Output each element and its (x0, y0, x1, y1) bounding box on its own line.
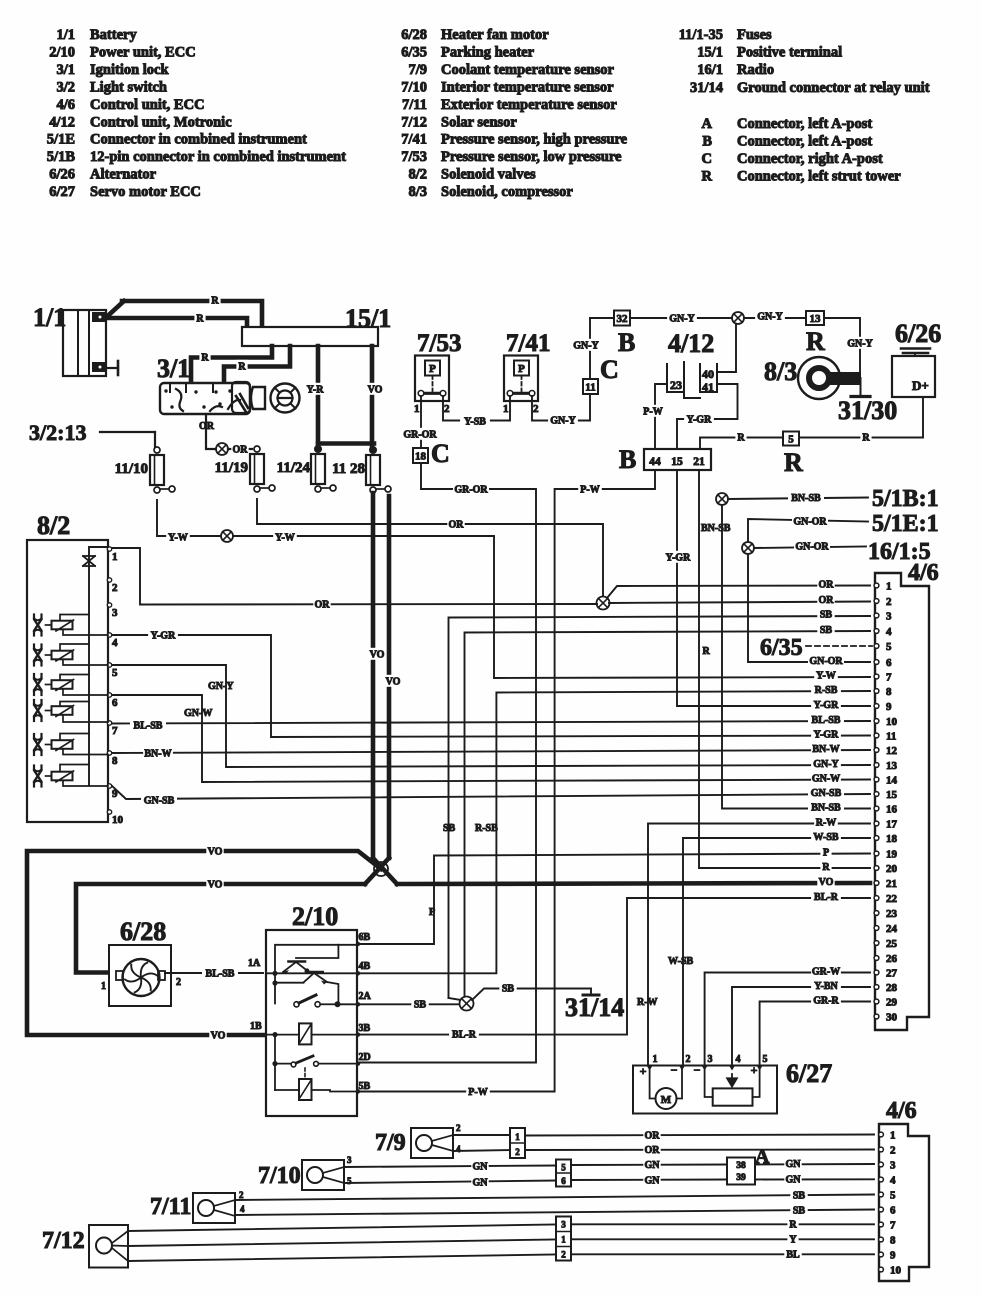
svg-text:R: R (862, 433, 870, 444)
4/6 bottom pins (879, 1130, 902, 1277)
wire GR-R 4/6 pin29 to 6/27 pin5 (760, 1002, 870, 1066)
svg-text:BL: BL (786, 1250, 800, 1261)
svg-text:GN-OR: GN-OR (793, 517, 827, 528)
svg-text:GN-Y: GN-Y (757, 312, 783, 323)
wire R-W 4/6 pin17 to 6/27 pin1 (648, 824, 870, 1066)
wire SB 4/6 pin4 to ground junction (465, 631, 871, 997)
svg-text:BL-SB: BL-SB (206, 969, 235, 980)
svg-text:2: 2 (686, 1054, 691, 1065)
svg-text:4/12: 4/12 (49, 114, 75, 130)
wire VO 15/1 to fuse 11/28 (370, 346, 375, 450)
8/2 internal supply bus (89, 547, 108, 785)
ignition key bezel (251, 387, 265, 409)
solenoid valve 6 in 8/2 (34, 765, 108, 787)
svg-text:1B: 1B (250, 1021, 262, 1032)
svg-text:5: 5 (763, 1054, 768, 1065)
svg-text:Y-W: Y-W (275, 533, 295, 544)
svg-text:GN: GN (786, 1175, 802, 1186)
connector B bar 44 15 21 (619, 445, 711, 474)
wire VO lower-right branch to 4/6 pin 21 (397, 883, 870, 884)
svg-text:BN-SB: BN-SB (791, 493, 821, 504)
svg-text:SB: SB (793, 1206, 806, 1217)
wire BL-R 4/6 pin22 to 2/10 3B (360, 898, 870, 1035)
svg-text:2: 2 (886, 596, 892, 608)
power unit 2/10 (266, 902, 357, 1116)
svg-text:R: R (702, 168, 713, 184)
svg-text:30: 30 (886, 1012, 898, 1024)
svg-text:6/26: 6/26 (49, 167, 75, 183)
svg-text:GN-Y: GN-Y (813, 759, 839, 770)
svg-text:SB: SB (793, 1191, 806, 1202)
svg-text:23: 23 (886, 908, 898, 920)
wire Y-GR 8/2 pin4 to 4/6 pin 11 (112, 635, 870, 737)
connector C box 18 (413, 448, 428, 463)
svg-text:GN-Y: GN-Y (573, 341, 599, 352)
svg-text:BL-SB: BL-SB (134, 721, 163, 732)
svg-text:7/10: 7/10 (258, 1163, 301, 1189)
svg-text:−: − (671, 1063, 678, 1077)
legend column 3 (679, 27, 930, 184)
svg-text:24: 24 (886, 923, 898, 935)
svg-text:Battery: Battery (90, 27, 137, 43)
svg-text:6: 6 (886, 657, 892, 669)
svg-text:GN-OR: GN-OR (809, 656, 843, 667)
svg-text:Y-GR: Y-GR (151, 631, 176, 642)
svg-text:8/2: 8/2 (37, 511, 70, 540)
svg-text:3B: 3B (359, 1023, 371, 1034)
svg-text:BL-R: BL-R (452, 1030, 477, 1041)
svg-text:Pressure sensor, high pressure: Pressure sensor, high pressure (441, 132, 628, 148)
svg-text:Solenoid valves: Solenoid valves (441, 167, 536, 183)
pressure sensor 7/53 (414, 330, 461, 415)
svg-text:1: 1 (112, 551, 118, 563)
svg-text:GN-W: GN-W (812, 774, 840, 785)
svg-text:15: 15 (671, 456, 683, 468)
svg-text:+: + (640, 1064, 647, 1078)
svg-text:14: 14 (886, 775, 898, 787)
svg-text:7: 7 (886, 672, 892, 684)
svg-text:GN-Y: GN-Y (669, 314, 695, 325)
wire OR to 4/6 bottom pin2 (525, 1149, 874, 1152)
svg-text:BL-R: BL-R (814, 892, 839, 903)
battery 1/1 (33, 303, 106, 376)
svg-text:C: C (600, 355, 619, 384)
svg-text:7/9: 7/9 (408, 62, 427, 78)
control unit ECC connector 4/6 (bottom) (879, 1098, 929, 1281)
battery ground stub (106, 367, 118, 369)
svg-text:Ignition lock: Ignition lock (90, 62, 169, 78)
wire BN-SB splice to 4/6 pin 16 (722, 505, 870, 809)
svg-text:11/10: 11/10 (115, 461, 148, 477)
wire BN-SB splice to 5/1B:1 (728, 498, 868, 500)
svg-text:3/2:13: 3/2:13 (29, 420, 86, 445)
wire GN to 4/6 bottom pin3 (755, 1163, 874, 1166)
wire GN-W 8/2 pin6 to 4/6 pin 14 (112, 695, 870, 782)
svg-text:Y-GR: Y-GR (814, 730, 839, 741)
svg-text:4: 4 (112, 637, 118, 649)
svg-text:Y-GR: Y-GR (666, 553, 691, 564)
svg-text:GN-Y: GN-Y (847, 339, 873, 350)
wire R connector B pin21 to box 5 (700, 438, 783, 450)
svg-text:GN: GN (645, 1176, 661, 1187)
svg-text:W-SB: W-SB (668, 956, 694, 967)
wire GR-OR box 18 to power unit 2/10 pin 2D (360, 463, 536, 1063)
svg-text:1: 1 (503, 403, 509, 415)
svg-text:R: R (201, 353, 209, 364)
svg-text:B: B (618, 328, 635, 357)
wire Y-W fuse 11/10 to 4/6 pin 7 (157, 500, 221, 536)
svg-text:38: 38 (736, 1161, 746, 1171)
svg-text:7/12: 7/12 (401, 114, 427, 130)
svg-text:BL-SB: BL-SB (812, 715, 841, 726)
svg-text:1: 1 (886, 581, 892, 593)
svg-text:11: 11 (585, 381, 595, 393)
svg-text:VO: VO (819, 877, 834, 888)
svg-text:7/12: 7/12 (42, 1228, 85, 1254)
legend column 2 (401, 27, 627, 200)
svg-text:Connector, left A-post: Connector, left A-post (737, 116, 872, 132)
svg-text:GN: GN (786, 1159, 802, 1170)
svg-text:7/53: 7/53 (417, 330, 461, 357)
svg-text:P-W: P-W (643, 407, 662, 418)
wire Y to 4/6 bottom pin8 (571, 1238, 874, 1240)
svg-text:GR-OR: GR-OR (454, 485, 488, 496)
svg-text:11 28: 11 28 (332, 461, 365, 477)
ground 31/14 (583, 994, 599, 997)
wire GN-Y 7/41 pin2 to connector C box 11 (532, 394, 590, 421)
wire Y-GR 4/12 pin 41 to connector B pin 15 (677, 384, 738, 449)
fuse 11/10 (27, 310, 941, 1281)
svg-text:6/28: 6/28 (401, 27, 427, 43)
svg-text:BN-W: BN-W (144, 749, 171, 760)
svg-text:40: 40 (702, 367, 714, 381)
svg-text:10: 10 (890, 1265, 902, 1277)
svg-text:SB: SB (820, 610, 833, 621)
svg-text:10: 10 (112, 814, 124, 826)
svg-text:GN: GN (473, 1178, 489, 1189)
svg-text:5: 5 (890, 1190, 896, 1202)
svg-text:R-W: R-W (637, 997, 658, 1008)
svg-text:BN-W: BN-W (812, 744, 839, 755)
svg-text:5/1B: 5/1B (47, 149, 76, 165)
wire GN-OR splice to 16/1:5 (754, 547, 866, 549)
2/10 internal transistor stage (266, 945, 357, 1008)
svg-text:2: 2 (176, 977, 181, 988)
wire P-W connector B pin44 to power unit 2/10 pin 5B (360, 470, 655, 1092)
connector box 1/2 (510, 1128, 525, 1158)
svg-text:4/12: 4/12 (668, 329, 714, 358)
svg-text:Radio: Radio (737, 62, 774, 78)
svg-text:GN-SB: GN-SB (144, 796, 175, 807)
svg-text:4B: 4B (359, 961, 371, 972)
svg-text:R: R (211, 296, 219, 307)
svg-text:M: M (661, 1094, 672, 1106)
svg-text:1A: 1A (248, 958, 261, 969)
wire SB 2/10 pin 2A to ground junction (360, 1003, 458, 1005)
svg-text:SB: SB (443, 823, 456, 834)
2/10 internal relay resistors (266, 1023, 357, 1100)
wire SB 4/6 pin3 to ground junction (449, 616, 871, 998)
wire BL-SB 6/28 pin2 to 2/10 pin 1A (165, 972, 263, 974)
svg-text:7: 7 (112, 725, 118, 737)
svg-text:16/1: 16/1 (697, 62, 723, 78)
svg-text:Y-GR: Y-GR (687, 415, 712, 426)
svg-text:GN-Y: GN-Y (208, 681, 234, 692)
svg-text:Y-W: Y-W (816, 671, 836, 682)
svg-text:Connector in combined instrume: Connector in combined instrument (90, 132, 307, 148)
svg-text:19: 19 (886, 849, 898, 861)
svg-text:8: 8 (890, 1235, 896, 1247)
svg-text:4: 4 (456, 1144, 461, 1154)
wire R-SB 4/6 pin8 to 2/10 4B (360, 691, 870, 973)
svg-text:BN-SB: BN-SB (701, 523, 731, 534)
svg-text:7/11: 7/11 (402, 97, 427, 113)
svg-text:1: 1 (561, 1235, 566, 1245)
wire GN to connector A box 38/39 (571, 1164, 727, 1167)
svg-text:Heater fan motor: Heater fan motor (441, 27, 549, 43)
svg-text:7/41: 7/41 (506, 330, 550, 357)
svg-text:B: B (702, 133, 712, 149)
pressure sensor 7/41 (503, 330, 550, 415)
wire R to 4/6 bottom pin7 (571, 1223, 874, 1225)
svg-text:R: R (238, 362, 246, 373)
svg-text:OR: OR (233, 445, 249, 456)
wire GN 7/10 to connector box 5/6 (344, 1166, 556, 1168)
svg-text:P: P (429, 363, 436, 375)
svg-text:OR: OR (645, 1145, 661, 1156)
wire SB 7/11 to 4/6 bottom pin6 (235, 1210, 874, 1216)
splice BN-SB (716, 493, 728, 505)
svg-text:Solar sensor: Solar sensor (441, 114, 517, 130)
wire OR junction to solenoid valves 8/2 pin 1 (112, 548, 597, 605)
wire GR-W 4/6 pin27 to 6/27 pin3 (705, 973, 870, 1066)
4/6 top pins (874, 581, 897, 1024)
svg-text:6: 6 (112, 697, 118, 709)
svg-text:P: P (429, 907, 435, 918)
solenoid compressor 8/3 (764, 357, 840, 399)
wires 7/12 to connector box 3/1/2 (128, 1225, 556, 1232)
svg-text:R: R (806, 327, 825, 356)
svg-text:VO: VO (208, 880, 223, 891)
svg-text:9: 9 (890, 1250, 896, 1262)
svg-text:6/35: 6/35 (401, 44, 427, 60)
wire GN-OR splice to 4/6 pin 6 (748, 554, 870, 662)
svg-text:P-W: P-W (580, 485, 599, 496)
svg-text:4: 4 (736, 1054, 741, 1065)
solenoid valve 4 in 8/2 (34, 700, 108, 722)
wire OR junction to 4/6 pin 2 (609, 602, 870, 604)
svg-text:2: 2 (456, 1123, 461, 1133)
svg-text:17: 17 (886, 819, 898, 831)
svg-text:2: 2 (444, 403, 450, 415)
svg-text:OR: OR (315, 600, 331, 611)
svg-text:+: + (751, 1063, 758, 1077)
svg-text:29: 29 (886, 997, 898, 1009)
svg-text:12: 12 (886, 745, 898, 757)
svg-text:Connector, right A-post: Connector, right A-post (737, 151, 883, 167)
8/2 pin stubs (107, 547, 123, 826)
svg-text:Exterior temperature sensor: Exterior temperature sensor (441, 97, 617, 113)
svg-text:OR: OR (199, 421, 215, 432)
wire GR-OR 7/53 pin1 to connector C box 18 (420, 396, 422, 448)
svg-text:6: 6 (561, 1176, 566, 1186)
wire GN-SB 8/2 pin9 to 4/6 pin 15 (112, 786, 870, 799)
svg-text:VO: VO (386, 677, 401, 688)
svg-text:6/27: 6/27 (49, 184, 75, 200)
svg-text:1: 1 (101, 981, 106, 992)
svg-text:SB: SB (414, 1000, 427, 1011)
svg-text:8/2: 8/2 (408, 167, 427, 183)
svg-text:4/6: 4/6 (908, 560, 939, 586)
wire Y-SB 7/53 pin2 to 7/41 pin1 (443, 396, 510, 421)
svg-text:Ground connector at relay unit: Ground connector at relay unit (737, 80, 930, 96)
fuse 11/24 (27, 310, 941, 1281)
svg-text:21: 21 (693, 456, 705, 468)
svg-text:2A: 2A (359, 991, 372, 1002)
svg-text:GN-SB: GN-SB (811, 788, 842, 799)
wire Y-GR connector B pin15 to 4/6 pin 9 (677, 470, 870, 706)
svg-text:OR: OR (819, 580, 835, 591)
alternator 6/26 (892, 319, 941, 397)
svg-text:C: C (702, 151, 712, 167)
2/10 pin labels (356, 932, 372, 1094)
svg-text:GR-W: GR-W (812, 967, 840, 978)
svg-text:OR: OR (449, 520, 465, 531)
svg-text:5: 5 (788, 433, 794, 445)
svg-text:6/27: 6/27 (786, 1059, 832, 1088)
connector R box 13 (806, 311, 824, 325)
8/2 bus connector symbol (83, 556, 95, 566)
svg-text:Control unit, ECC: Control unit, ECC (90, 97, 205, 113)
connector box 5/6 (556, 1160, 571, 1187)
wire R box 5 to alternator 6/26 (799, 397, 923, 438)
svg-text:32: 32 (617, 313, 629, 325)
wire GN to 4/6 bottom pin4 (755, 1178, 874, 1180)
svg-text:A: A (702, 116, 713, 132)
wire OR ignition to fuse 11/19 (206, 414, 216, 449)
svg-text:Parking heater: Parking heater (441, 44, 535, 60)
svg-text:8/3: 8/3 (764, 357, 797, 386)
svg-text:R: R (822, 862, 830, 873)
svg-text:P: P (518, 363, 525, 375)
svg-text:8/3: 8/3 (408, 184, 427, 200)
svg-text:Y: Y (789, 1235, 797, 1246)
svg-text:R: R (784, 448, 803, 477)
svg-text:1/1: 1/1 (56, 27, 75, 43)
svg-text:Power unit, ECC: Power unit, ECC (90, 44, 196, 60)
svg-text:2: 2 (561, 1250, 566, 1260)
svg-text:GN-W: GN-W (184, 708, 212, 719)
wire GN-Y box 11 to box 32 (590, 318, 614, 379)
svg-text:5B: 5B (359, 1081, 371, 1092)
svg-text:11: 11 (886, 731, 896, 743)
wire SB junction to ground 31/14 (472, 989, 591, 1001)
svg-text:5: 5 (347, 1176, 352, 1186)
svg-text:Connector, left strut tower: Connector, left strut tower (737, 168, 901, 184)
wire VO fuse 11/28 to X crossing (left leg) (371, 493, 376, 858)
svg-text:7/10: 7/10 (401, 79, 427, 95)
svg-text:16: 16 (886, 804, 898, 816)
svg-text:12-pin connector in combined i: 12-pin connector in combined instrument (90, 149, 346, 165)
svg-text:3: 3 (561, 1220, 566, 1230)
svg-text:3: 3 (112, 607, 118, 619)
svg-text:11/24: 11/24 (277, 460, 311, 476)
junction OR (597, 597, 610, 610)
svg-text:6/28: 6/28 (120, 917, 166, 946)
svg-text:C: C (431, 439, 450, 468)
svg-text:R: R (789, 1220, 797, 1231)
svg-text:28: 28 (886, 982, 898, 994)
svg-text:13: 13 (810, 313, 822, 325)
svg-text:OR: OR (645, 1131, 661, 1142)
svg-text:P-W: P-W (468, 1087, 487, 1098)
control unit ECC connector 4/6 (top) (875, 560, 939, 1030)
svg-text:1: 1 (515, 1132, 520, 1142)
svg-text:18: 18 (415, 450, 427, 462)
svg-text:2: 2 (515, 1147, 520, 1157)
svg-text:3/1: 3/1 (157, 354, 190, 383)
ignition lock 3/1 (157, 354, 250, 414)
svg-text:8: 8 (886, 686, 892, 698)
svg-text:1: 1 (890, 1130, 896, 1142)
wire Y-R 15/1 to fuse 11/24 (316, 346, 321, 448)
svg-text:Y-GR: Y-GR (814, 700, 839, 711)
svg-text:7/11: 7/11 (150, 1194, 191, 1220)
svg-text:27: 27 (886, 968, 898, 980)
control unit 4/12 (667, 329, 717, 398)
wire P-W 4/12 pin 23 to connector B pin 44 (655, 384, 667, 449)
connector B box 32 (614, 311, 630, 326)
svg-text:3: 3 (886, 611, 892, 623)
solenoid valve 3 in 8/2 (34, 674, 108, 695)
svg-text:Servo motor ECC: Servo motor ECC (90, 184, 201, 200)
svg-text:Y-BN: Y-BN (814, 981, 838, 992)
svg-text:31/14: 31/14 (565, 993, 624, 1022)
svg-text:VO: VO (211, 1031, 226, 1042)
svg-text:Fuses: Fuses (737, 27, 772, 43)
svg-text:R-SB: R-SB (475, 823, 498, 834)
svg-text:7/41: 7/41 (401, 132, 427, 148)
svg-text:OR: OR (819, 595, 835, 606)
svg-text:R: R (737, 433, 745, 444)
svg-text:11/1-35: 11/1-35 (679, 27, 723, 43)
wire P 4/6 pin19 to 2/10 6B (360, 854, 870, 945)
svg-text:2: 2 (112, 582, 118, 594)
svg-text:5/1B:1: 5/1B:1 (872, 486, 939, 512)
svg-text:R: R (196, 314, 204, 325)
wire GN-Y box 13 to compressor solenoid 8/3 (824, 318, 860, 371)
svg-text:2: 2 (239, 1190, 244, 1200)
wire 7/9 to connector box (453, 1134, 510, 1136)
connector box 3/1/2 (556, 1217, 571, 1261)
svg-text:22: 22 (886, 893, 898, 905)
svg-text:SB: SB (820, 625, 833, 636)
svg-text:1: 1 (653, 1054, 658, 1065)
fuse 11 28 (27, 310, 941, 1281)
solenoid valve 1 in 8/2 (34, 615, 108, 636)
svg-text:20: 20 (886, 863, 898, 875)
legend column 1 (47, 27, 346, 200)
svg-text:GN: GN (473, 1162, 489, 1173)
svg-text:Interior temperature sensor: Interior temperature sensor (441, 79, 614, 95)
svg-text:31/14: 31/14 (690, 80, 723, 96)
wire 8/3 to ground (829, 372, 861, 385)
wire R battery to 15/1 (lower) (108, 318, 247, 327)
wire BN-W 8/2 pin8 to 4/6 pin 12 (112, 750, 870, 753)
solenoid valve 2 in 8/2 (34, 644, 108, 666)
svg-text:BN-SB: BN-SB (811, 803, 841, 814)
ground junction splice (449, 998, 462, 1000)
